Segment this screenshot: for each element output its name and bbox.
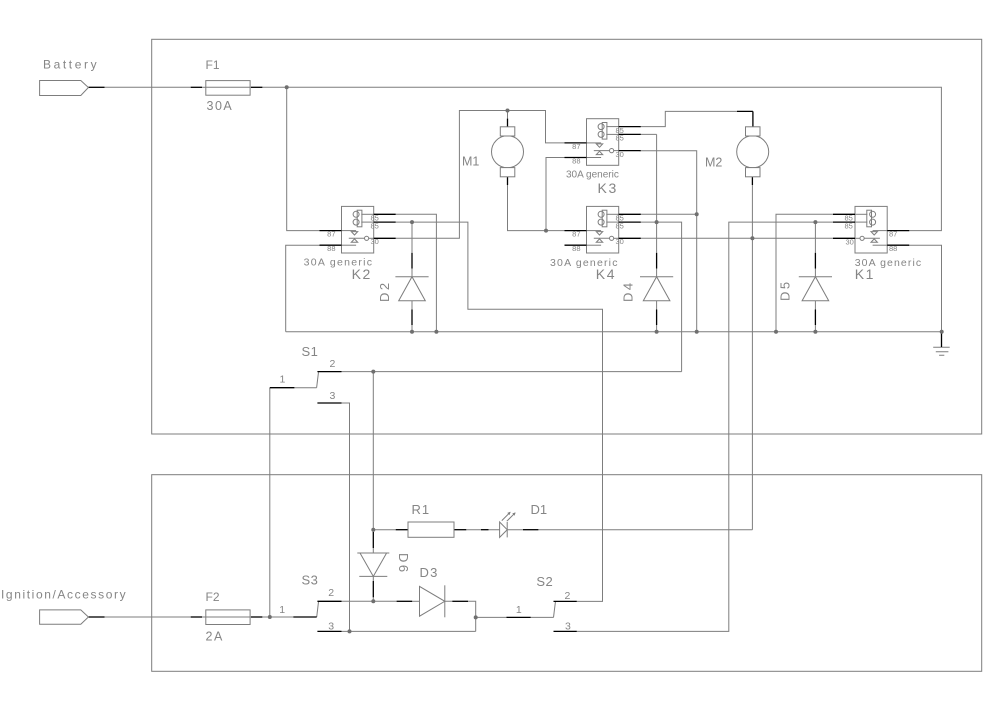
svg-text:K2: K2	[352, 266, 372, 282]
wire ground rail	[286, 331, 942, 333]
wire S1 arm	[317, 372, 319, 388]
wire K2 coil pin 1 down to ground rail	[396, 214, 437, 331]
svg-text:K3: K3	[598, 180, 618, 196]
outer block frame (lower)	[152, 475, 982, 672]
pin stub D4 top	[656, 253, 658, 269]
connector Ignition/Accessory	[40, 610, 89, 624]
wire S1 throw 3 down to S3 throw 3 net	[342, 403, 350, 631]
junction rail K2 coil 1	[434, 330, 438, 334]
pin stub S2 throw 2	[554, 600, 577, 602]
svg-text:M1: M1	[462, 154, 479, 168]
pin stub D4 bottom	[656, 310, 658, 326]
pin stub M2 top	[737, 111, 753, 126]
svg-text:88: 88	[889, 244, 897, 253]
pin stub ignition connector	[89, 616, 105, 618]
wire M1 bottom to K4 pin 87	[508, 185, 565, 231]
wire M1 top node: K2 pin 30 up and over to K3 pin 87	[396, 111, 565, 239]
wire battery bus from F1 to K1 pin 87 via right edge	[262, 87, 941, 230]
wire S3 throw 2 to D3 anode	[342, 600, 397, 602]
svg-text:D2: D2	[377, 280, 392, 302]
junction D5 top / K1 coil 2	[813, 220, 817, 224]
svg-text:85: 85	[616, 134, 624, 143]
pin stub D5 top	[814, 253, 816, 269]
wire K4 coil pin 2 to D4 node and down to S1 throw 2 rail	[640, 222, 682, 372]
wire S2 pole gray part	[531, 616, 554, 618]
svg-text:S3: S3	[302, 573, 319, 588]
junction D6 bottom / S3 throw 2	[371, 599, 375, 603]
junction M1 bottom / K3 pin 88	[544, 229, 548, 233]
pin stub S3 pole	[293, 616, 316, 618]
pin stub R1 right	[454, 529, 466, 531]
junction R1 / D6 top	[371, 528, 375, 532]
svg-text:D1: D1	[531, 502, 548, 517]
junction rail D5	[813, 330, 817, 334]
ground stem	[941, 332, 943, 347]
pin stub F2 left	[191, 616, 202, 618]
svg-text:3: 3	[565, 621, 571, 633]
wire M2 bottom down to D1 wire	[751, 185, 753, 530]
svg-text:Battery: Battery	[43, 58, 99, 72]
junction rail K1 coil 1	[774, 330, 778, 334]
junction rail ground	[940, 330, 944, 334]
outer block frame (upper)	[152, 39, 982, 434]
pin stub S1 throw 2	[317, 371, 341, 373]
svg-text:87: 87	[572, 142, 580, 151]
pin stub D6 top	[372, 532, 374, 548]
svg-text:30: 30	[616, 237, 624, 246]
pin stub S3 throw 2	[317, 600, 341, 602]
svg-text:D3: D3	[420, 565, 439, 580]
svg-text:87: 87	[889, 230, 897, 239]
wire K1 pin 88 down to ground rail	[909, 245, 942, 332]
svg-text:85: 85	[616, 221, 624, 230]
junction D3 / S2 pole	[474, 615, 478, 619]
diode D5	[799, 277, 832, 301]
relay K4	[565, 206, 641, 253]
wire battery bus from connector to F1	[105, 86, 191, 88]
pin stub D2 top	[411, 253, 413, 269]
svg-text:30A: 30A	[207, 99, 234, 113]
svg-text:K4: K4	[596, 266, 616, 282]
junction F1 output	[285, 85, 289, 89]
wire D6 bottom lead	[372, 576, 374, 601]
fuse F2	[206, 610, 250, 625]
wire D5 top lead	[814, 222, 816, 277]
junction rail D4	[655, 330, 659, 334]
wire D4 bottom lead	[656, 301, 658, 332]
pin stub D3 anode	[397, 600, 413, 602]
pin stub S1 pole	[270, 387, 295, 389]
diode D3 (pointing right)	[420, 586, 445, 616]
wire K1 coil pin 1 down to ground rail	[776, 214, 833, 331]
fuse F1	[206, 81, 250, 96]
pin stub D5 bottom	[814, 310, 816, 326]
svg-text:M2: M2	[705, 155, 722, 169]
pin stub battery connector	[89, 86, 105, 88]
svg-text:S2: S2	[536, 574, 553, 589]
svg-text:30: 30	[371, 237, 379, 246]
junction S1 throw 2	[371, 370, 375, 374]
svg-text:R1: R1	[412, 502, 431, 517]
LED D1 (pointing right)	[500, 522, 508, 537]
wire ignition from connector to F2	[105, 616, 191, 618]
junction rail D2	[410, 330, 414, 334]
junction rail K3 pin 30	[695, 330, 699, 334]
relay K2	[320, 206, 396, 253]
svg-text:87: 87	[572, 230, 580, 239]
wire S1 throw 2 to D4/K coil node	[342, 371, 682, 373]
wire F1 junction down to K2 pin 87	[287, 87, 320, 230]
wire S1 pole lead gray part	[294, 387, 316, 389]
wire D2 top lead	[411, 222, 413, 277]
junction D2 top / K2 coil 2	[410, 220, 414, 224]
svg-text:D4: D4	[621, 280, 636, 302]
wire D1 cathode to M2-bottom vertical	[538, 529, 752, 531]
svg-text:S1: S1	[302, 344, 319, 359]
relay K1 (mirrored)	[833, 206, 909, 253]
svg-text:2: 2	[565, 590, 571, 602]
wire K3 coil pin 2 down to D4 node	[640, 134, 657, 276]
pin stub S2 pole	[507, 616, 531, 618]
pin stub D3 cathode	[452, 600, 468, 602]
junction S1 throw 3 / S3 throw 3	[348, 629, 352, 633]
svg-text:88: 88	[572, 157, 580, 166]
pin stub F2 right	[251, 616, 262, 618]
wire K3 coil pin 1 up and over to M2 top	[640, 111, 738, 126]
svg-text:88: 88	[327, 244, 335, 253]
svg-text:2: 2	[330, 358, 336, 370]
wire S3 arm	[317, 602, 319, 617]
pin stub S2 throw 3	[554, 630, 577, 632]
pin stub M1 bottom	[507, 177, 509, 185]
ground symbol	[933, 347, 950, 355]
svg-text:30A generic: 30A generic	[566, 170, 619, 181]
wire D6 top lead	[372, 530, 374, 553]
relay K3	[565, 119, 641, 166]
svg-text:D6: D6	[396, 553, 411, 575]
svg-text:F2: F2	[206, 590, 220, 604]
wire D2 bottom lead	[411, 301, 413, 332]
diode D4	[640, 277, 673, 301]
pin stub S1 throw 3	[317, 402, 341, 404]
pin stub D6 bottom	[372, 581, 374, 597]
wire K3 pin 88 down to M1 bottom node	[546, 158, 565, 231]
svg-text:F1: F1	[206, 58, 220, 72]
svg-text:3: 3	[330, 390, 336, 402]
junction D4 top / K3 coil 2	[655, 220, 659, 224]
pin stub S3 throw 3	[317, 630, 341, 632]
svg-text:87: 87	[327, 230, 335, 239]
wire M1 top pin lead	[507, 111, 509, 119]
wire R1 right lead to D1	[466, 529, 523, 531]
wire K2 pin 88 to ground rail	[286, 245, 320, 332]
wire S1 throw2 junction down to R1 / D6 node	[372, 372, 374, 530]
resistor R1	[408, 522, 454, 537]
svg-text:2A: 2A	[206, 630, 224, 644]
diode D6 (pointing down)	[357, 552, 389, 554]
svg-text:1: 1	[280, 374, 286, 386]
svg-text:1: 1	[516, 604, 522, 616]
wire K1 coil pin 2 / D5 node down to S2 throw 3	[577, 222, 833, 631]
connector Battery	[40, 81, 89, 96]
pin stub D2 bottom	[411, 310, 413, 326]
wire D3 anode gray part	[412, 600, 419, 602]
pin stub D1 cathode	[523, 529, 538, 531]
svg-text:D5: D5	[778, 279, 793, 301]
svg-text:1: 1	[279, 604, 285, 616]
svg-text:2: 2	[328, 587, 334, 599]
pin stub R1 left	[396, 529, 408, 531]
wire S1 pole down to F2 output node	[269, 388, 271, 617]
motor M2	[737, 127, 769, 177]
svg-text:3: 3	[328, 621, 334, 633]
pin stub M1 top	[507, 119, 509, 127]
wire D5 bottom lead	[814, 301, 816, 332]
svg-text:30: 30	[845, 238, 853, 247]
wire S2 arm	[554, 602, 556, 617]
wire D3 cathode down to S2 pole, junction to S3 throw3 net	[445, 601, 508, 631]
svg-text:Ignition/Accessory: Ignition/Accessory	[1, 588, 127, 602]
wire K3 pin 30 down to ground rail, junction with K4 coil pin 1	[640, 151, 697, 332]
pin stub F1 right	[251, 86, 262, 88]
svg-text:85: 85	[844, 221, 852, 230]
svg-text:85: 85	[371, 221, 379, 230]
wire R1 left lead	[373, 529, 395, 531]
junction K4 coil 1 / K3 pin 30	[695, 212, 699, 216]
wire S3 throw 3 across to D3 node	[342, 630, 476, 632]
svg-text:K1: K1	[855, 266, 875, 282]
pin stub F1 left	[191, 86, 202, 88]
wire F2 to S3 pole	[262, 616, 293, 618]
junction M2 bottom / K1 pin 30	[750, 236, 754, 240]
wire K4 pin 30 to K1 pin 30 with M2 bottom junction	[640, 237, 834, 239]
pin stub D1 anode	[481, 529, 489, 531]
wire K2 coil pin 2 / D2 node routed to S2 throw 2	[396, 222, 603, 601]
junction F2 output / S1 pole	[268, 615, 272, 619]
pin stub M2 bottom	[751, 177, 753, 185]
junction M1 top	[506, 109, 510, 113]
svg-text:88: 88	[572, 244, 580, 253]
svg-text:30: 30	[616, 150, 624, 159]
motor M1	[492, 127, 524, 177]
diode D2	[395, 277, 428, 301]
